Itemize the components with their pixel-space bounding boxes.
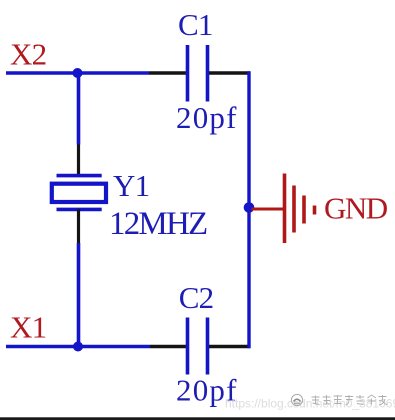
wire vertical from crystal down to X1 net <box>77 243 81 347</box>
watermark logo circle <box>291 394 302 405</box>
svg-text:12MHZ: 12MHZ <box>109 206 207 242</box>
pin 2 of capacitor C2 <box>209 345 250 349</box>
svg-text:C1: C1 <box>178 7 213 42</box>
watermark brand glyphs <box>312 395 388 405</box>
capacitor C2 left plate <box>186 318 190 375</box>
pin 1 of crystal Y1 <box>77 145 80 177</box>
ground bar 2 <box>292 186 296 233</box>
svg-text:https://blog.csdn.net/m0_38106: https://blog.csdn.net/m0_38106923 <box>225 397 395 411</box>
pin 2 of crystal Y1 <box>77 209 80 243</box>
svg-text:X1: X1 <box>10 310 46 345</box>
ground bar 3 <box>302 196 306 224</box>
crystal Y1 top plate <box>57 174 102 178</box>
crystal Y1 body <box>52 184 106 202</box>
pin 1 of capacitor C1 <box>149 71 186 75</box>
node junction at X2 wire <box>73 68 83 78</box>
ground GND stub wire <box>252 208 284 211</box>
wire vertical right bus <box>247 71 250 348</box>
wire net X2 horizontal <box>6 71 149 74</box>
svg-text:C2: C2 <box>179 280 214 315</box>
capacitor C1 right plate <box>206 45 210 102</box>
svg-text:GND: GND <box>324 191 388 226</box>
bottom bar <box>0 417 395 420</box>
node junction at GND tap <box>244 202 255 213</box>
node junction at X1 wire <box>73 342 83 352</box>
pin 1 of capacitor C2 <box>150 345 186 349</box>
ground bar 1 <box>283 174 287 244</box>
svg-text:X2: X2 <box>10 37 46 72</box>
pin 2 of capacitor C1 <box>209 71 250 75</box>
ground bar 4 <box>313 206 317 215</box>
svg-text:Y1: Y1 <box>113 168 149 203</box>
wire net X1 horizontal <box>6 345 150 348</box>
crystal Y1 bottom plate <box>57 208 102 212</box>
svg-text:20pf: 20pf <box>176 100 238 135</box>
capacitor C2 right plate <box>206 318 210 375</box>
capacitor C1 left plate <box>186 45 190 102</box>
wire vertical from X2 junction down <box>77 73 81 145</box>
